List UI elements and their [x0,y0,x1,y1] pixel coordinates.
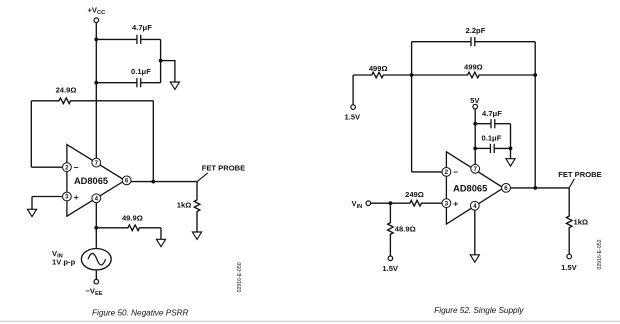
svg-text:AD8065: AD8065 [74,176,108,186]
svg-text:1.5V: 1.5V [561,263,578,272]
svg-text:0.1μF: 0.1μF [482,134,502,143]
svg-text:499Ω: 499Ω [464,62,483,71]
svg-text:2: 2 [65,164,69,171]
svg-text:49.9Ω: 49.9Ω [122,214,143,223]
svg-text:−: − [74,162,79,172]
svg-text:FET PROBE: FET PROBE [558,170,601,179]
svg-text:0.1μF: 0.1μF [131,67,151,76]
svg-text:6: 6 [504,185,508,192]
svg-text:1kΩ: 1kΩ [177,201,192,210]
svg-text:+: + [74,192,79,202]
svg-text:2.2pF: 2.2pF [466,26,486,35]
svg-text:02916-E-050: 02916-E-050 [237,262,243,292]
svg-text:2: 2 [445,169,449,176]
svg-text:249Ω: 249Ω [405,190,424,199]
svg-text:02916-E-052: 02916-E-052 [597,239,603,269]
svg-text:+: + [453,199,458,209]
svg-text:4.7μF: 4.7μF [482,109,502,118]
svg-text:3: 3 [445,200,449,207]
svg-text:1.5V: 1.5V [382,264,399,273]
svg-text:4.7μF: 4.7μF [132,23,152,32]
svg-text:3: 3 [65,194,69,201]
svg-text:AD8065: AD8065 [453,184,487,194]
svg-text:4: 4 [95,196,99,203]
svg-text:Figure 52. Single Supply: Figure 52. Single Supply [434,306,524,315]
svg-text:1kΩ: 1kΩ [574,218,589,227]
svg-text:7: 7 [473,166,477,173]
svg-text:7: 7 [95,160,99,167]
svg-text:24.9Ω: 24.9Ω [56,86,77,95]
svg-text:Figure 50. Negative PSRR: Figure 50. Negative PSRR [92,308,189,317]
svg-text:5V: 5V [470,96,480,105]
svg-text:1V p-p: 1V p-p [52,258,76,267]
svg-text:48.9Ω: 48.9Ω [395,224,416,233]
svg-text:−: − [453,167,458,177]
svg-text:4: 4 [473,203,477,210]
svg-text:FET PROBE: FET PROBE [202,163,245,172]
svg-text:1.5V: 1.5V [344,113,361,122]
svg-text:6: 6 [125,178,129,185]
svg-text:499Ω: 499Ω [369,64,388,73]
